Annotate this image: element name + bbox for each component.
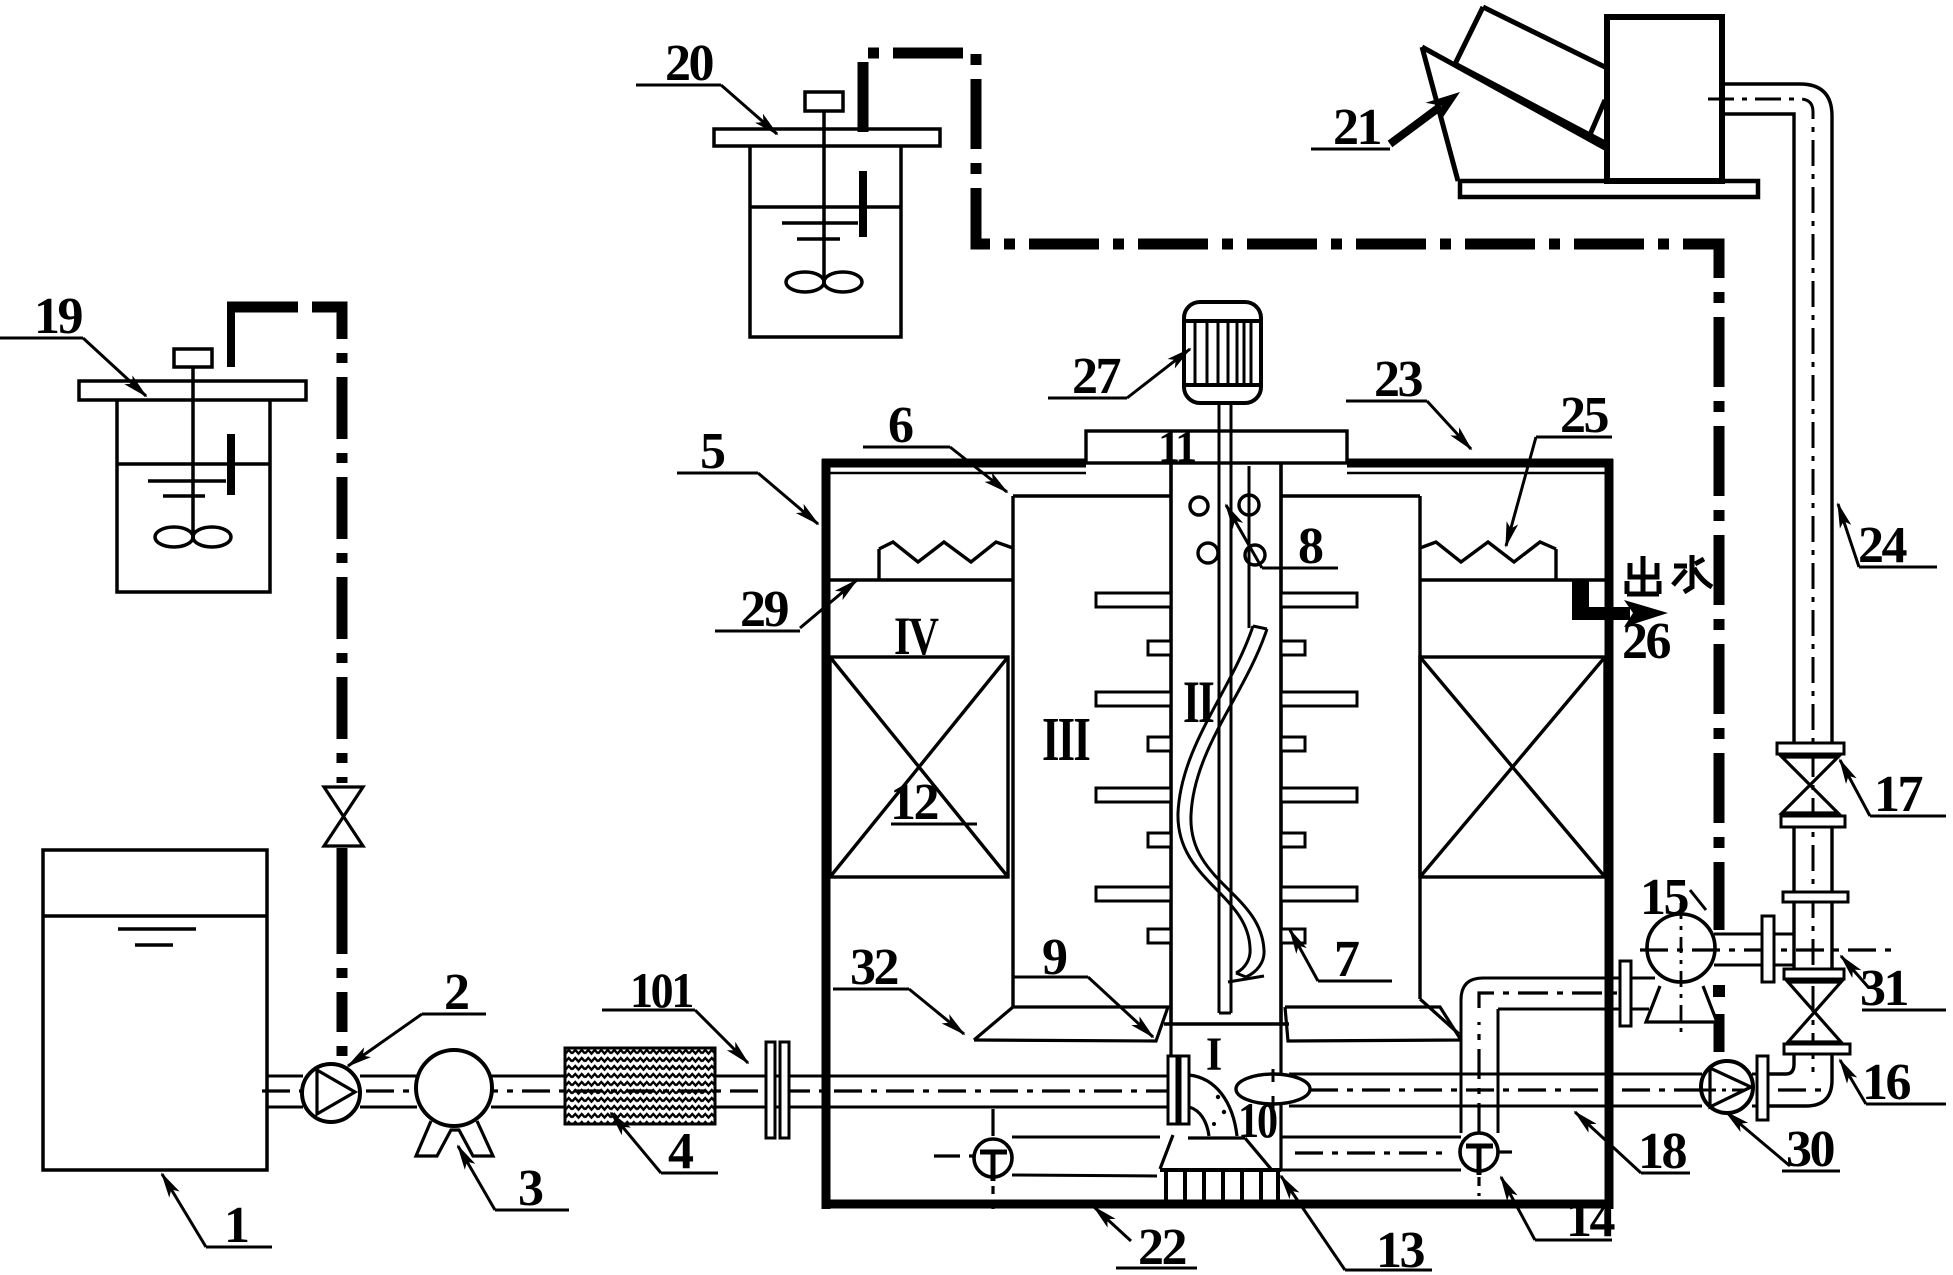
- wire: centerline through pump 30: [1703, 1089, 1753, 1092]
- tank 20 (dosing tank with stirrer): [714, 92, 940, 337]
- wire: main pipe right section to pump 30: [1289, 1074, 1796, 1106]
- label 16: [1840, 1060, 1946, 1104]
- dip pipe of tank 20: [859, 171, 867, 237]
- svg-text:17: 17: [1874, 766, 1923, 823]
- drain valve right (circle-T): [1460, 1133, 1512, 1196]
- draft tube I walls: [1171, 1024, 1281, 1170]
- riser pipe 24 (double line with elbows): [1722, 84, 1832, 1106]
- wire: main suction pipe from tank 1 to reactor (double line): [267, 1076, 1171, 1107]
- label 5: [677, 473, 818, 524]
- label 20: [636, 85, 777, 134]
- sludge pipe right segment: [1281, 1137, 1461, 1170]
- svg-text:23: 23: [1374, 351, 1423, 408]
- pump 3 (feed pump with feet): [416, 1050, 493, 1156]
- svg-text:4: 4: [668, 1123, 694, 1180]
- flange F5: [1784, 1044, 1850, 1054]
- svg-text:19: 19: [34, 288, 83, 345]
- outer draft tube 6 walls: [1013, 496, 1420, 1007]
- bell mouth 13: [1160, 1135, 1271, 1169]
- reactor tank 5 thick outline: [822, 459, 1613, 1209]
- svg-text:5: 5: [700, 423, 725, 480]
- label 25: [1506, 437, 1612, 546]
- bottom plate right: [1285, 1007, 1461, 1041]
- label 23: [1346, 401, 1471, 449]
- top plate 11: [1086, 431, 1347, 463]
- label 22: [1094, 1207, 1197, 1268]
- paddles on tube II right short: [1281, 641, 1305, 943]
- label 7: [1290, 930, 1392, 981]
- svg-text:30: 30: [1786, 1121, 1835, 1178]
- paddles on tube II left short: [1148, 641, 1171, 943]
- pump 15 (circle with feet): [1646, 903, 1717, 1032]
- flange F3: [1783, 892, 1848, 902]
- svg-text:18: 18: [1638, 1123, 1687, 1180]
- label 3: [458, 1146, 569, 1210]
- tank 1 (raw water tank): [43, 850, 267, 1170]
- packing box right (X): [1420, 657, 1605, 877]
- label 101: [602, 1010, 748, 1063]
- label 29: [715, 580, 857, 631]
- svg-text:8: 8: [1298, 518, 1323, 575]
- label 6: [863, 447, 1007, 492]
- riser pipe 14 (double line): [1461, 978, 1632, 1133]
- svg-text:III: III: [1042, 706, 1090, 774]
- flange F2: [1781, 816, 1845, 827]
- motor 27: [1184, 302, 1261, 403]
- svg-text:101: 101: [630, 962, 692, 1018]
- valve 31 (bowtie): [1788, 982, 1841, 1042]
- label 17: [1840, 760, 1946, 816]
- packing box 12 left (X): [830, 657, 1008, 877]
- filter / heater 4 (hatched box): [565, 1048, 715, 1124]
- wire: thick dash-dot feed line from tank 19 to pump 2: [227, 307, 342, 1062]
- label 24: [1838, 504, 1937, 567]
- impeller ellipse 10: [1236, 1069, 1310, 1112]
- label 9: [1013, 977, 1153, 1037]
- dip pipe of tank 19: [227, 302, 235, 495]
- label 13: [1281, 1176, 1432, 1270]
- wire: pump 15 discharge pipe to riser 24: [1640, 934, 1900, 965]
- helical ribbon 7: [1178, 626, 1267, 982]
- paddles on tube II right long: [1281, 593, 1357, 901]
- svg-text:15: 15: [1640, 869, 1689, 926]
- svg-text:3: 3: [518, 1160, 543, 1217]
- svg-text:I: I: [1206, 1028, 1222, 1081]
- drain valve left (circle-T): [974, 1109, 1012, 1212]
- flange F1 top of valve 17: [1777, 743, 1844, 754]
- label 18: [1575, 1112, 1690, 1173]
- pump 2 (inline circulation pump): [302, 1064, 360, 1122]
- valve 17 (bowtie): [1782, 757, 1838, 813]
- svg-text:2: 2: [444, 964, 468, 1021]
- label 27: [1048, 349, 1190, 398]
- svg-text:11: 11: [1158, 422, 1195, 471]
- outlet 26 thick arrow: [1572, 580, 1668, 627]
- label 2: [348, 1014, 486, 1066]
- svg-text:9: 9: [1042, 929, 1067, 986]
- wire: dash-dot centerline of main pipe (left part): [262, 1089, 1185, 1092]
- svg-text:22: 22: [1138, 1219, 1186, 1275]
- pump 30 (circle with triangle): [1701, 1061, 1753, 1113]
- screw conveyor device 21: [1422, 7, 1758, 197]
- label 31: [1841, 956, 1946, 1010]
- svg-text:32: 32: [850, 939, 898, 996]
- wire: dash-dot centerline of pipe 24: [1708, 99, 1813, 1078]
- label 1: [162, 1174, 272, 1247]
- flange at reactor pipe inlet: [1168, 1056, 1189, 1124]
- svg-text:6: 6: [888, 397, 913, 454]
- flange on pump 15 suction: [1620, 961, 1631, 1026]
- label 21 (thick arrow): [1311, 92, 1460, 149]
- label 4: [611, 1113, 718, 1173]
- svg-text:1: 1: [224, 1197, 248, 1254]
- wire: thick dash-dot line from tank 20 over to down-pipe at right: [863, 53, 1725, 1052]
- label 14: [1501, 1177, 1612, 1240]
- label 32: [833, 989, 964, 1034]
- svg-text:7: 7: [1334, 931, 1359, 988]
- svg-text:24: 24: [1858, 517, 1908, 574]
- wire: dash-dot centerline main pipe right: [1310, 1088, 1830, 1091]
- svg-text:20: 20: [665, 35, 714, 92]
- flange right of pump 30: [1757, 1056, 1768, 1120]
- paddles on tube II left long: [1096, 593, 1171, 901]
- svg-text:12: 12: [890, 774, 938, 831]
- svg-text:10: 10: [1238, 1092, 1277, 1148]
- reactor top inner line: [830, 472, 1605, 475]
- label 12: [891, 823, 977, 826]
- weir 29 left (serrated): [830, 542, 1013, 580]
- svg-text:13: 13: [1376, 1222, 1425, 1275]
- text 出水 (water out) drawn as strokes: [1627, 555, 1712, 594]
- stirrer shaft: [1219, 403, 1249, 1013]
- bottom skirts of tube 6: [974, 999, 1459, 1040]
- tank 19 (dosing tank with stirrer): [79, 349, 306, 592]
- label 30: [1726, 1112, 1840, 1171]
- elbow at tube I inlet: [1189, 1075, 1237, 1136]
- label 8: [1226, 505, 1338, 568]
- weir 25 right (serrated): [1420, 542, 1605, 580]
- svg-text:II: II: [1183, 669, 1214, 735]
- draft tube II walls: [1164, 463, 1289, 1024]
- holes 8 on shaft/tube: [1190, 495, 1265, 565]
- sludge pipe left segment: [934, 1137, 1160, 1176]
- svg-text:27: 27: [1072, 348, 1121, 405]
- svg-text:25: 25: [1560, 387, 1609, 444]
- label 19: [0, 338, 146, 396]
- label 15: [1690, 890, 1706, 910]
- svg-text:16: 16: [1862, 1054, 1911, 1111]
- flange on pump 15 discharge: [1762, 916, 1774, 982]
- svg-text:26: 26: [1622, 613, 1671, 670]
- flange 101 on main pipe: [766, 1042, 789, 1138]
- diffuser grid under bell mouth: [1160, 1170, 1281, 1200]
- flange F4: [1784, 969, 1844, 979]
- svg-text:31: 31: [1860, 960, 1908, 1017]
- svg-text:14: 14: [1566, 1191, 1616, 1248]
- svg-text:IV: IV: [894, 606, 939, 666]
- valve on feed line 19: [324, 787, 363, 846]
- svg-text:29: 29: [740, 581, 789, 638]
- svg-text:21: 21: [1333, 99, 1381, 156]
- bottom plate 9 left (annulus bottom): [974, 1007, 1168, 1041]
- wire: pump 15 suction continues: [1631, 978, 1655, 1009]
